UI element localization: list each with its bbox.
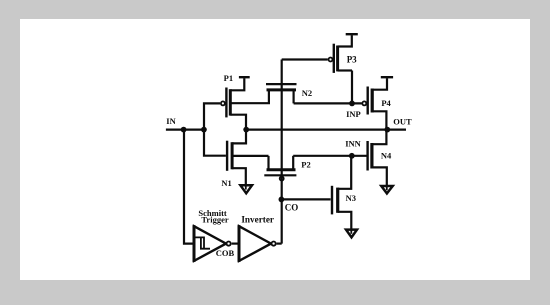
svg-text:P3: P3 — [347, 55, 357, 65]
svg-text:Inverter: Inverter — [241, 215, 274, 225]
wire CO row to N3 gate — [281, 198, 330, 200]
wire inverter output to CO — [277, 243, 282, 245]
node OUT — [384, 127, 390, 133]
transistor P1 — [221, 78, 246, 129]
transistor N2 — [231, 84, 296, 103]
svg-text:INN: INN — [345, 138, 361, 148]
power VDD rail of P1 — [239, 76, 250, 78]
node C: P1/N1 drain junction on internal row — [243, 127, 249, 133]
svg-text:P2: P2 — [301, 160, 310, 170]
svg-text:OUT: OUT — [393, 116, 412, 126]
transistor N1 — [227, 130, 246, 191]
ground symbol below N1 — [240, 185, 252, 193]
node B: IN row junction to P1/N1 gates — [201, 127, 207, 133]
wire COB link — [232, 243, 239, 245]
node INP — [349, 101, 355, 107]
svg-text:Trigger: Trigger — [201, 215, 228, 225]
wire internal row from drains to OUT — [246, 129, 406, 131]
svg-text:INP: INP — [346, 109, 361, 119]
svg-text:N1: N1 — [221, 178, 231, 188]
wire INN row — [293, 155, 366, 157]
svg-text:CO: CO — [285, 202, 299, 212]
node INN — [349, 153, 355, 159]
node CO — [279, 197, 285, 203]
wire INP row — [294, 102, 362, 104]
schmitt trigger U1 — [194, 225, 231, 262]
power VDD rail of P3 — [346, 33, 358, 35]
svg-text:P4: P4 — [381, 98, 391, 108]
wire CO gate line vertical — [281, 60, 283, 244]
transistor N4 — [368, 130, 387, 191]
svg-text:P1: P1 — [224, 73, 233, 83]
transistor P4 — [362, 78, 387, 129]
wire N1 mid lead to P2 — [233, 155, 268, 157]
svg-text:N3: N3 — [346, 193, 356, 203]
node A: IN row tap to Schmitt trigger — [181, 127, 187, 133]
ground symbol below N4 — [381, 186, 392, 193]
wire IN input lead — [166, 129, 204, 131]
transistor P3 — [329, 35, 353, 73]
transistor P2 — [264, 156, 296, 181]
ground symbol below N3 — [346, 230, 357, 238]
transistor N3 — [332, 156, 351, 235]
svg-text:COB: COB — [216, 248, 235, 258]
wire P3 drain drop to INP — [351, 71, 353, 104]
svg-text:N2: N2 — [302, 88, 312, 98]
svg-text:IN: IN — [166, 116, 176, 126]
wire N1 gate connection — [204, 130, 226, 156]
power VDD rail of P4 — [381, 76, 393, 78]
wire P1 gate connection — [204, 103, 220, 129]
inverter U2 — [239, 225, 276, 262]
svg-text:N4: N4 — [381, 150, 392, 160]
wire P3 gate connection — [282, 58, 328, 60]
wire Schmitt trigger input drop — [184, 130, 194, 244]
